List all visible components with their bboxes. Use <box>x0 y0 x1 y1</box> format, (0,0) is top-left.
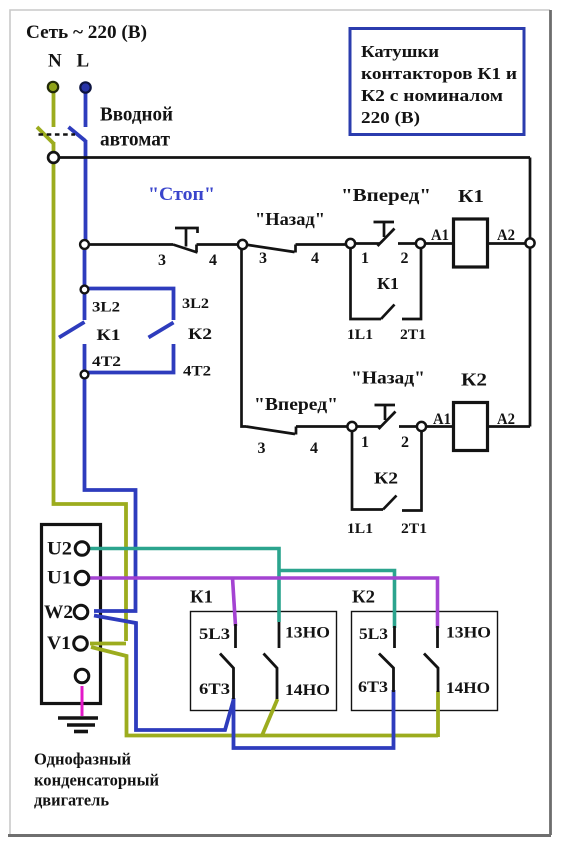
svg-text:3L2: 3L2 <box>92 300 120 316</box>
svg-text:13НО: 13НО <box>285 625 330 642</box>
svg-text:конденсаторный: конденсаторный <box>34 771 159 790</box>
svg-text:Катушки: Катушки <box>361 42 439 61</box>
svg-text:А2: А2 <box>497 411 515 428</box>
wire: stop row left segment <box>86 243 173 246</box>
node: before Nazad button row2 <box>347 422 356 431</box>
node: before Vpered button row1 <box>346 239 355 248</box>
svg-text:2Т1: 2Т1 <box>400 327 426 343</box>
wire: K1 coil A2 to bus node <box>488 242 527 245</box>
supply terminal N (olive dot) <box>48 82 58 92</box>
svg-text:220 (В): 220 (В) <box>361 108 420 127</box>
wire: magenta ground stub <box>81 686 84 716</box>
supply terminal L (blue dot) <box>80 82 90 92</box>
wire: olive up to K2 14NO <box>436 691 440 737</box>
svg-text:3: 3 <box>259 250 267 267</box>
svg-text:2Т1: 2Т1 <box>401 521 427 537</box>
svg-text:U2: U2 <box>47 539 72 560</box>
terminal PE (unlabelled) <box>75 669 89 683</box>
breaker blade (N pole, olive) <box>37 127 54 144</box>
wire: blue from interlock bottom node down then to W2 <box>85 377 136 611</box>
wire: blue out of W2 down to K1 6T3 <box>94 616 234 731</box>
terminal U2 <box>75 542 89 556</box>
svg-text:"Назад": "Назад" <box>351 368 425 388</box>
contact K1 5L3-6T3 <box>220 624 236 699</box>
svg-text:2: 2 <box>401 434 409 451</box>
node: L to stop row <box>80 240 89 249</box>
svg-text:двигатель: двигатель <box>34 791 109 810</box>
svg-text:14НО: 14НО <box>446 680 490 697</box>
svg-text:"Стоп": "Стоп" <box>148 184 215 205</box>
svg-text:N: N <box>48 51 62 72</box>
svg-text:К1: К1 <box>190 587 213 607</box>
wire: K2 coil A2 to right bus <box>488 425 530 428</box>
wire: L blue down to stop row node <box>84 140 88 242</box>
wire: olive into V1 terminal <box>90 642 126 646</box>
info box (blue) <box>350 29 524 135</box>
svg-text:А2: А2 <box>497 227 515 244</box>
svg-text:5L3: 5L3 <box>359 626 388 643</box>
svg-text:6Т3: 6Т3 <box>199 681 230 698</box>
breaker dashed link <box>39 133 76 135</box>
svg-text:V1: V1 <box>47 633 71 654</box>
svg-text:Однофазный: Однофазный <box>34 750 131 769</box>
wire: top bus from N node to right bus <box>55 156 530 159</box>
svg-text:3: 3 <box>258 440 266 457</box>
contactor K2 power/aux contact box <box>352 612 498 711</box>
svg-text:Сеть ~ 220 (В): Сеть ~ 220 (В) <box>26 22 147 43</box>
contact: K2 aux latch (1L1-2T1) <box>352 431 383 510</box>
svg-text:3L2: 3L2 <box>182 296 209 312</box>
plunger of Stop button <box>175 228 198 233</box>
contact K1 interlock (blue) left branch <box>83 292 87 320</box>
svg-text:4Т2: 4Т2 <box>92 354 121 370</box>
wire: L blue vertical from terminal to breaker <box>59 90 394 748</box>
svg-text:1L1: 1L1 <box>347 521 373 537</box>
contact K1 13NO-14NO <box>264 622 280 699</box>
contact K2 interlock (blue) right branch <box>83 289 174 321</box>
svg-text:"Назад": "Назад" <box>255 209 325 229</box>
svg-text:К2: К2 <box>188 326 212 343</box>
svg-text:4: 4 <box>311 250 319 267</box>
wire: feed down to row2 <box>242 247 247 427</box>
wire: N olive down to junction and long run down <box>54 142 127 641</box>
contact: K1 aux latch (1L1-2T1) <box>351 248 382 319</box>
svg-text:"Вперед": "Вперед" <box>254 394 338 414</box>
node: N to top bus <box>48 152 59 163</box>
svg-text:К2: К2 <box>374 469 398 488</box>
svg-text:1: 1 <box>361 434 369 451</box>
contact: Vpered (row1) NO pushbutton <box>353 242 380 245</box>
wire: olive out of V1 down to bottom bus <box>91 647 438 736</box>
svg-text:4: 4 <box>310 440 318 457</box>
svg-text:контакторов К1 и: контакторов К1 и <box>361 64 517 83</box>
node: after Vpered button row1 <box>416 239 425 248</box>
svg-text:автомат: автомат <box>100 129 170 151</box>
contactor K1 power/aux contact box <box>191 612 337 711</box>
wire: to K2 coil A1 <box>424 425 453 428</box>
svg-text:2: 2 <box>401 250 409 267</box>
wire: to K1 coil A1 <box>423 242 453 245</box>
svg-text:К2 с номиналом: К2 с номиналом <box>361 86 503 105</box>
svg-text:13НО: 13НО <box>446 625 491 642</box>
wire: teal from U2 to contactor contacts <box>89 549 395 629</box>
terminal W2 <box>74 605 88 619</box>
svg-text:L: L <box>77 51 90 72</box>
wire: olive tap up to K1 14NO <box>262 699 278 736</box>
svg-text:К1: К1 <box>458 186 484 206</box>
wire: N olive vertical from terminal to breaker <box>37 90 438 737</box>
svg-text:К2: К2 <box>352 587 375 607</box>
svg-text:W2: W2 <box>44 602 73 623</box>
node: after stop button <box>238 240 247 249</box>
svg-text:1: 1 <box>361 250 369 267</box>
svg-text:К1: К1 <box>97 327 121 344</box>
svg-text:К1: К1 <box>377 274 399 293</box>
wire: blue from stop node down to interlock <box>83 247 87 287</box>
svg-text:3: 3 <box>158 252 166 269</box>
wire: right bus down to K2 coil A2 <box>529 158 532 427</box>
motor terminal box <box>42 525 101 704</box>
ground <box>58 718 98 732</box>
contact: Stop NC pushbutton blade <box>173 245 198 253</box>
contact K2 13NO-14NO <box>424 626 438 692</box>
contact: Vpered (row2) NO contact <box>246 427 295 435</box>
contact: Nazad (row2) NO pushbutton <box>354 425 381 428</box>
svg-text:Вводной: Вводной <box>100 104 173 126</box>
wire: purple from U1 to contactor contacts <box>89 578 438 628</box>
node: after Nazad button row2 <box>417 422 426 431</box>
wire: blue from K1 6T3 down and across to K2 6T3 <box>234 690 394 748</box>
svg-text:К2: К2 <box>461 370 487 390</box>
breaker blade (L pole, blue) <box>69 127 86 141</box>
purple tap down to K1 5L3 <box>233 578 236 626</box>
node: K1 A2 on right bus <box>525 238 534 247</box>
node: interlock bottom <box>81 371 89 379</box>
coil K2 <box>454 403 488 451</box>
svg-text:4Т2: 4Т2 <box>183 364 211 380</box>
svg-text:U1: U1 <box>47 568 72 589</box>
svg-text:"Вперед": "Вперед" <box>341 185 431 205</box>
svg-text:1L1: 1L1 <box>347 327 373 343</box>
contact K2 5L3-6T3 <box>379 626 395 692</box>
node: interlock top <box>81 286 89 294</box>
svg-text:6Т3: 6Т3 <box>358 679 388 696</box>
terminal U1 <box>75 571 89 585</box>
svg-text:5L3: 5L3 <box>199 626 230 643</box>
wire + contact: Nazad (row1) NO button contact <box>245 245 295 253</box>
svg-text:А1: А1 <box>433 411 451 428</box>
terminal V1 <box>74 637 88 651</box>
coil K1 <box>454 219 488 267</box>
svg-text:А1: А1 <box>431 227 449 244</box>
svg-text:4: 4 <box>209 252 217 269</box>
svg-text:14НО: 14НО <box>285 682 330 699</box>
